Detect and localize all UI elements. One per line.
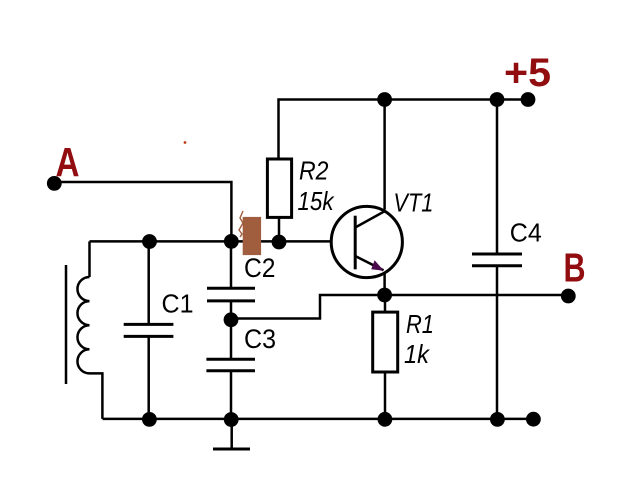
wire bottom ground rail: [103, 418, 534, 421]
junction dot C4/+5 rail: [490, 92, 505, 107]
terminal dot +5: [521, 92, 536, 107]
wire R2 bottom lead: [278, 217, 281, 242]
junction dot C4 bottom: [490, 412, 505, 427]
junction dot C1 bottom: [142, 412, 157, 427]
wire C1 upper lead: [147, 241, 150, 324]
resistor R2: [267, 159, 291, 217]
svg-text:C2: C2: [244, 253, 276, 283]
wire emitter feedback to C2/C3 node: [231, 295, 385, 319]
svg-text:15k: 15k: [298, 186, 336, 216]
capacitor C1 plates: [124, 324, 174, 336]
wire C4 branch lower: [496, 265, 499, 419]
transistor VT1 base bar: [354, 216, 357, 270]
transistor VT1 emitter stroke: [355, 256, 383, 270]
svg-text:R2: R2: [299, 156, 329, 186]
node A terminal dot: [47, 176, 62, 191]
junction dot C1 top: [142, 234, 157, 249]
wire node A to base node: [54, 182, 231, 241]
wire C2-C3 middle lead: [230, 301, 233, 359]
junction dot C2/C3 node: [224, 312, 239, 327]
junction dot ground node: [224, 412, 239, 427]
svg-text:C4: C4: [510, 217, 542, 247]
svg-text:R1: R1: [406, 309, 434, 339]
svg-text:1k: 1k: [404, 339, 431, 369]
wire main base rail: [90, 240, 332, 243]
capacitor C4 plates: [472, 254, 522, 266]
wire emitter node to B: [385, 294, 568, 297]
svg-text:C3: C3: [244, 324, 276, 354]
wire R1 bottom lead: [384, 372, 387, 419]
junction dot R1 bottom: [378, 412, 393, 427]
wire C2 upper lead: [230, 241, 233, 288]
junction dot emitter node: [377, 288, 392, 303]
wire C1 lower lead: [147, 336, 150, 418]
terminal dot bottom rail end: [526, 412, 541, 427]
component C2 brown marker overlay: [243, 217, 261, 255]
junction dot R2 bottom: [272, 235, 287, 250]
transistor VT1 emitter arrow: [371, 260, 384, 270]
brown scribble mark: [239, 211, 243, 237]
svg-text:VT1: VT1: [393, 187, 433, 217]
transistor VT1 circle: [331, 206, 402, 277]
wire emitter lead: [383, 272, 386, 295]
red speckle: [184, 141, 187, 144]
wire C3 lower lead: [230, 371, 233, 419]
junction dot collector/+5 rail: [377, 92, 392, 107]
inductor L1 coil: [77, 277, 102, 419]
svg-text:+5: +5: [504, 51, 551, 95]
junction dot A/C2 top: [224, 234, 239, 249]
capacitor C3 plates: [206, 359, 255, 370]
wire R1 top lead: [384, 295, 387, 313]
ground: [213, 448, 250, 451]
svg-text:A: A: [56, 139, 80, 185]
svg-text:B: B: [564, 244, 586, 290]
wire collector to +5 rail: [383, 100, 386, 210]
resistor R1: [373, 312, 398, 372]
node B terminal dot: [561, 289, 576, 304]
svg-text:C1: C1: [162, 288, 194, 318]
wire top +5 rail: [279, 100, 529, 160]
wire coil branch: [88, 241, 91, 277]
wire ground stub: [230, 419, 233, 449]
wire C4 branch upper: [496, 100, 499, 255]
transistor VT1 collector stroke: [355, 211, 386, 228]
capacitor C2 plates: [207, 288, 255, 301]
inductor L1 core bar: [65, 265, 68, 384]
